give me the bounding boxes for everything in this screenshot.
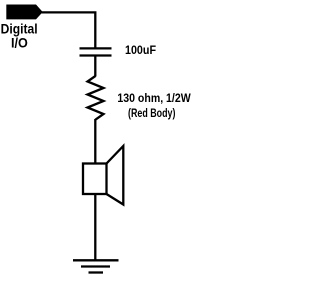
value label 130 ohm, 1/2W (Red Body) bbox=[117, 91, 191, 120]
wire speaker to ground bbox=[94, 194, 96, 260]
wire resistor to speaker bbox=[94, 119, 96, 164]
svg-text:130 ohm, 1/2W: 130 ohm, 1/2W bbox=[117, 91, 191, 105]
svg-text:100uF: 100uF bbox=[125, 45, 156, 57]
svg-text:I/O: I/O bbox=[11, 36, 28, 51]
ground symbol bbox=[73, 260, 119, 272]
connector tag Digital I/O bbox=[6, 5, 42, 20]
wire from tag to capacitor bbox=[42, 12, 96, 48]
resistor zigzag bbox=[88, 76, 104, 120]
label Digital I/O bbox=[1, 21, 38, 50]
wire capacitor to resistor bbox=[94, 56, 96, 77]
speaker LS1 horn bbox=[107, 146, 124, 205]
capacitor C1 plates bbox=[80, 48, 112, 55]
svg-text:(Red Body): (Red Body) bbox=[128, 106, 175, 120]
svg-text:Digital: Digital bbox=[1, 21, 38, 36]
speaker LS1 box bbox=[83, 164, 107, 195]
